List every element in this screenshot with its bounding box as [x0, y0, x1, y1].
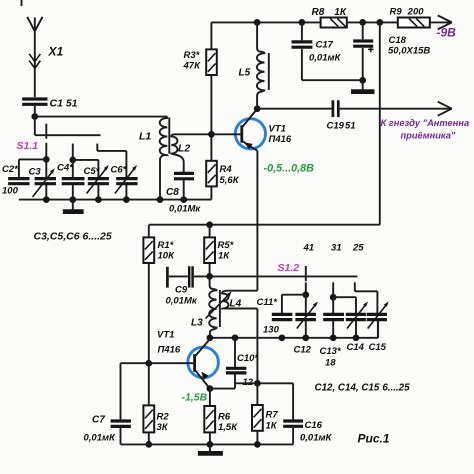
svg-text:X1: X1 [48, 45, 64, 59]
svg-text:C6*: C6* [111, 165, 128, 176]
transistor VT1 (top) [211, 109, 265, 151]
svg-text:C3,C5,C6 6....25: C3,C5,C6 6....25 [34, 231, 112, 243]
node right rail top [376, 19, 383, 26]
svg-text:R6: R6 [218, 412, 231, 423]
inductor L1 [160, 117, 168, 200]
node R5 bottom / C9 [206, 273, 213, 280]
variable arrow C14 [347, 302, 368, 329]
svg-text:1К: 1К [218, 251, 230, 262]
variable arrow C15 [368, 302, 389, 329]
capacitor C7 [111, 363, 131, 444]
capacitor C2 [8, 179, 29, 184]
svg-text:C5*: C5* [84, 166, 101, 177]
wire collector line to C19 [257, 108, 331, 110]
resistor R4 [206, 134, 217, 199]
switch S1.2 [210, 266, 358, 281]
svg-text:130: 130 [263, 325, 280, 336]
wire C1 node to L1 [35, 116, 167, 118]
capacitor C4 [62, 160, 85, 200]
node R6 bottom [207, 441, 214, 448]
svg-text:R4: R4 [220, 164, 233, 175]
capacitor C10 [226, 338, 247, 389]
svg-text:1К: 1К [266, 421, 278, 432]
wire emitter to C10 [210, 388, 235, 390]
capacitor C16 [283, 383, 303, 444]
core L3/L4 [219, 290, 221, 327]
arrow -9V [438, 15, 452, 29]
node C13 bottom [330, 334, 337, 341]
variable arrow C3 [33, 168, 55, 197]
svg-text:C11*: C11* [257, 297, 279, 308]
capacitor C11 [272, 314, 293, 319]
svg-text:0,01Мк: 0,01Мк [166, 296, 198, 307]
svg-text:1,5К: 1,5К [218, 422, 238, 433]
wire top bus (C2..R4 bottom) [19, 199, 212, 201]
svg-text:C8: C8 [166, 187, 179, 198]
svg-text:18: 18 [325, 358, 336, 369]
svg-text:R2: R2 [157, 412, 170, 423]
node C3 bottom [43, 196, 50, 203]
svg-text:C12, C14, C156....25: C12, C14, C156....25 [315, 383, 411, 394]
capacitor C8 [174, 173, 194, 199]
wire C4-C5 tie [73, 160, 99, 178]
wire L2 to base node [175, 133, 212, 135]
svg-text:приёмника": приёмника" [401, 131, 456, 141]
inductor L2 [171, 134, 183, 172]
variable arrow C6 [115, 165, 137, 194]
wire bracket to C15 [355, 291, 378, 313]
antenna X1 [27, 17, 42, 97]
node C4 bottom [69, 196, 76, 203]
node C11 bottom [279, 334, 286, 341]
svg-text:0,01мК: 0,01мК [300, 433, 333, 444]
resistor R7 [252, 383, 263, 444]
node C6 bottom [123, 196, 130, 203]
svg-text:100: 100 [2, 186, 19, 197]
resistor R6 [204, 389, 215, 445]
wire lower tank bus [210, 321, 378, 338]
wire bracket to C6 [97, 151, 126, 178]
svg-text:C18: C18 [389, 35, 407, 46]
capacitor C3 [35, 159, 56, 199]
capacitor C14 [346, 314, 366, 337]
node R7 bottom [254, 441, 261, 448]
svg-text:C10*: C10* [237, 353, 259, 364]
svg-text:C1 51: C1 51 [50, 98, 78, 110]
svg-text:-9В: -9В [437, 26, 457, 40]
wire L4 top to emitter line [226, 290, 257, 292]
capacitor C19 [333, 100, 338, 117]
svg-text:0,01мК: 0,01мК [309, 53, 342, 64]
node C8 bottom [180, 196, 187, 203]
wire C2 tie [19, 159, 46, 177]
svg-text:-0,5...0,8В: -0,5...0,8В [264, 162, 315, 174]
resistor R2 [143, 363, 154, 444]
core L1/L2 [168, 118, 170, 154]
svg-text:R7: R7 [266, 410, 279, 421]
svg-text:41: 41 [303, 243, 315, 254]
svg-text:-1,5В: -1,5В [182, 392, 208, 404]
svg-text:5,6К: 5,6К [220, 175, 240, 186]
svg-text:R3*: R3* [184, 50, 201, 61]
variable arrow C12 [297, 302, 318, 329]
transistor VT1 (bottom) [121, 339, 219, 389]
node C3 top [43, 156, 50, 163]
S1.2 contact stub 2 [332, 282, 334, 297]
S1.1 contact stub 1 [45, 143, 47, 160]
svg-text:C1951: C1951 [327, 121, 356, 132]
node C13 top [330, 294, 337, 301]
S1.1 contact stub 3 [96, 144, 98, 151]
node C10 top [232, 334, 239, 341]
wire C11 tie [282, 295, 306, 313]
svg-text:C7: C7 [92, 415, 105, 426]
svg-text:L2: L2 [178, 143, 190, 155]
svg-text:50,0X15В: 50,0X15В [388, 46, 430, 57]
capacitor C5 [88, 179, 109, 200]
svg-text:VT1: VT1 [157, 330, 174, 341]
capacitor C9 [167, 266, 209, 287]
node C12 top [302, 291, 309, 298]
variable arrow C5 [87, 165, 109, 194]
node A (C1 junction) [31, 113, 38, 120]
ground (bottom section) [198, 444, 223, 453]
core L5 [268, 53, 270, 90]
svg-text:C14: C14 [347, 342, 365, 353]
resistor R3 [206, 22, 217, 134]
resistor R9 [398, 18, 430, 28]
svg-text:C12: C12 [294, 345, 312, 356]
wire top power rail [211, 21, 451, 23]
node L3 bottom/collector [207, 334, 214, 341]
node C17 top [299, 19, 306, 26]
svg-text:L3: L3 [191, 318, 203, 329]
svg-text:10К: 10К [158, 251, 176, 262]
S1.2 contact stub 1 [305, 282, 307, 294]
capacitor C12 [295, 295, 316, 338]
ground (C18) [351, 80, 375, 91]
node R2 bottom [145, 441, 152, 448]
svg-text:L5: L5 [239, 68, 251, 79]
inductor L3 [209, 276, 216, 337]
svg-text:S1.2: S1.2 [278, 262, 300, 274]
svg-text:R9200: R9200 [390, 7, 425, 18]
svg-text:C13*: C13* [320, 346, 342, 357]
node C12 bottom [302, 334, 309, 341]
svg-text:L1: L1 [139, 131, 151, 143]
svg-text:Рис.1: Рис.1 [358, 432, 390, 446]
capacitor C6 [116, 179, 137, 200]
node R5 top [206, 221, 213, 228]
wire VT1-top emitter down to S1.2 [256, 151, 258, 291]
node C14 bottom [353, 334, 360, 341]
svg-text:C15: C15 [369, 342, 387, 353]
svg-text:3К: 3К [157, 422, 169, 433]
node collector VT1 top [254, 105, 261, 112]
inductor L5 [257, 22, 265, 108]
svg-text:П416: П416 [269, 134, 292, 145]
svg-text:К гнезду "Антенна: К гнезду "Антенна [381, 118, 470, 128]
capacitor C13 [323, 314, 344, 337]
svg-text:R1*: R1* [158, 240, 175, 251]
capacitor C1 [22, 99, 47, 116]
node emitter VT1 bottom [207, 385, 214, 392]
svg-text:25: 25 [352, 243, 364, 254]
resistor R5 [204, 225, 215, 277]
wire middle rail [149, 224, 380, 226]
ground (top section) [63, 200, 84, 212]
svg-text:C9: C9 [175, 285, 188, 296]
S1.2 contact stub 3 [354, 282, 356, 291]
svg-text:C3: C3 [29, 167, 42, 178]
svg-text:0,01мК: 0,01мК [84, 433, 117, 444]
node C5 bottom [95, 196, 102, 203]
node C18 bottom [359, 77, 366, 84]
svg-text:S1.1: S1.1 [17, 140, 39, 152]
capacitor C15 [367, 314, 387, 337]
svg-text:C17: C17 [316, 40, 334, 51]
svg-text:C2*: C2* [2, 164, 19, 175]
node R7 top [254, 380, 261, 387]
svg-text:0,01Мк: 0,01Мк [169, 204, 201, 215]
capacitor C17 [292, 22, 363, 80]
node L1 bottom [157, 196, 164, 203]
svg-text:C16: C16 [305, 420, 323, 431]
inductor L4 [222, 291, 228, 309]
svg-text:C4*: C4* [57, 163, 74, 174]
wire right vertical (rail to lower rail) [379, 22, 381, 224]
node C18 top [359, 19, 366, 26]
svg-text:31: 31 [331, 243, 342, 254]
capacitor C18 (electrolytic) [353, 22, 373, 80]
variable arrow L3 [206, 292, 232, 319]
svg-text:47К: 47К [183, 61, 202, 72]
svg-text:VT1: VT1 [269, 124, 286, 135]
wire L4 bottom down to R7 node [226, 309, 257, 384]
wire C13-C14 tie [333, 297, 356, 313]
svg-text:R5*: R5* [218, 240, 235, 251]
node base VT1 top [208, 131, 215, 138]
resistor R8 [321, 18, 347, 28]
S1.1 contact stub 2 [72, 144, 74, 160]
wire bottom bus [121, 443, 294, 445]
wire emitter node wire to R7/C16 [235, 382, 293, 384]
node base VT1 bottom [145, 360, 152, 367]
node L5 top [254, 19, 261, 26]
crop artifact tick top-left [21, 0, 23, 6]
node C4 top [69, 157, 76, 164]
resistor R1 [143, 225, 154, 364]
svg-text:П416: П416 [158, 345, 181, 356]
switch S1.1 [35, 117, 101, 139]
wire C19 to antenna jack arrow [340, 102, 452, 116]
